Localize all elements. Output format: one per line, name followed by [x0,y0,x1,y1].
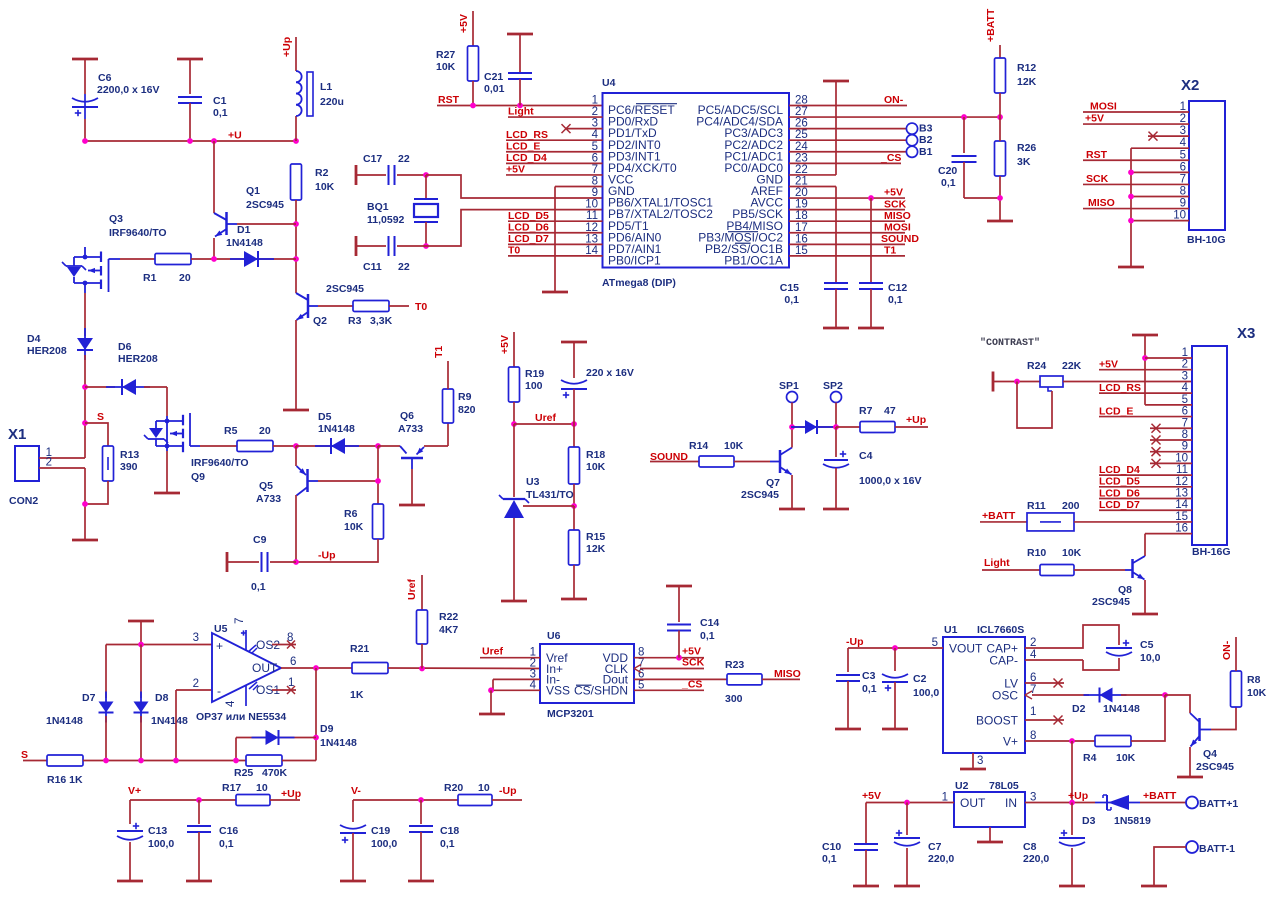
svg-text:C12: C12 [888,282,907,294]
svg-text:Uref: Uref [406,578,418,600]
svg-text:_CS: _CS [880,152,901,164]
svg-text:T1: T1 [433,346,445,358]
svg-text:_CS: _CS [681,678,702,690]
svg-text:C20: C20 [938,165,957,177]
svg-text:Q1: Q1 [246,185,260,197]
svg-text:C14: C14 [700,617,719,629]
svg-text:0,1: 0,1 [941,177,956,189]
svg-text:0,1: 0,1 [440,838,455,850]
svg-text:ICL7660S: ICL7660S [977,624,1024,636]
svg-text:+U: +U [228,130,242,142]
svg-text:R15: R15 [586,531,605,543]
svg-text:U6: U6 [547,630,561,642]
svg-text:220,0: 220,0 [1023,853,1049,865]
svg-text:R17: R17 [222,782,241,794]
svg-text:RST: RST [438,94,460,106]
svg-text:D4: D4 [27,333,41,345]
svg-text:R27: R27 [436,49,455,61]
svg-text:SCK: SCK [682,657,705,669]
svg-text:+5V: +5V [458,14,470,33]
svg-text:V-: V- [351,785,361,797]
svg-text:+5V: +5V [884,187,903,199]
svg-text:SOUND: SOUND [650,451,688,463]
svg-text:OUT: OUT [960,796,986,810]
svg-text:U4: U4 [602,77,616,89]
svg-text:Q3: Q3 [109,213,123,225]
svg-text:L1: L1 [320,81,332,93]
svg-text:+BATT: +BATT [1143,790,1177,802]
svg-text:Uref: Uref [482,646,504,658]
svg-text:3: 3 [193,632,199,644]
svg-text:C9: C9 [253,534,267,546]
svg-text:U2: U2 [955,780,969,792]
svg-text:ATmega8 (DIP): ATmega8 (DIP) [602,277,676,289]
svg-text:HER208: HER208 [27,345,67,357]
svg-text:470K: 470K [262,767,288,779]
svg-text:R12: R12 [1017,62,1036,74]
svg-text:3,3K: 3,3K [370,315,393,327]
svg-text:22K: 22K [1062,360,1082,372]
svg-text:+5V: +5V [1085,113,1104,125]
svg-text:U1: U1 [944,624,958,636]
svg-text:LCD_RS: LCD_RS [1099,382,1141,394]
svg-text:10K: 10K [586,461,606,473]
svg-text:R25: R25 [234,767,253,779]
svg-text:LCD_E: LCD_E [506,141,540,153]
svg-text:+5V: +5V [506,164,525,176]
svg-text:78L05: 78L05 [989,780,1019,792]
svg-text:220u: 220u [320,96,344,108]
svg-text:220,0: 220,0 [928,853,954,865]
svg-text:R8: R8 [1247,674,1261,686]
svg-text:SCK: SCK [884,198,907,210]
svg-text:Q5: Q5 [259,480,273,492]
svg-text:T0: T0 [415,301,427,313]
svg-text:0,1: 0,1 [784,294,799,306]
svg-text:20: 20 [179,272,191,284]
svg-text:SP2: SP2 [823,380,843,392]
svg-text:3K: 3K [1017,156,1031,168]
svg-text:-Up: -Up [318,550,336,562]
svg-text:V+: V+ [1003,734,1018,748]
svg-text:VOUT: VOUT [949,641,983,655]
svg-text:3: 3 [1182,370,1188,382]
svg-text:300: 300 [725,693,743,705]
svg-text:0,01: 0,01 [484,83,505,95]
svg-text:820: 820 [458,404,476,416]
svg-text:Q8: Q8 [1118,584,1132,596]
svg-text:HER208: HER208 [118,353,158,365]
svg-text:IRF9640/TO: IRF9640/TO [109,227,167,239]
svg-text:2SC945: 2SC945 [326,283,364,295]
svg-text:0,1: 0,1 [700,630,715,642]
svg-text:22: 22 [398,261,410,273]
svg-text:R18: R18 [586,449,605,461]
svg-text:R1: R1 [143,272,157,284]
svg-text:1K: 1K [350,689,364,701]
svg-text:CON2: CON2 [9,495,38,507]
svg-text:6: 6 [290,656,296,668]
svg-text:0,1: 0,1 [213,107,228,119]
svg-text:0,1: 0,1 [251,581,266,593]
svg-text:12K: 12K [1017,76,1037,88]
svg-text:1N4148: 1N4148 [318,423,355,435]
svg-text:390: 390 [120,461,138,473]
svg-text:2SC945: 2SC945 [246,199,284,211]
svg-text:Q7: Q7 [766,477,780,489]
svg-text:LCD_D6: LCD_D6 [508,222,549,234]
svg-text:0,1: 0,1 [822,853,837,865]
svg-text:R14: R14 [689,440,708,452]
svg-text:C4: C4 [859,450,873,462]
svg-text:Q9: Q9 [191,471,205,483]
svg-text:1N5819: 1N5819 [1114,815,1151,827]
svg-text:4K7: 4K7 [439,624,458,636]
svg-text:R7: R7 [859,405,873,417]
svg-text:C16: C16 [219,825,238,837]
svg-text:100: 100 [525,380,543,392]
svg-text:-Up: -Up [846,636,864,648]
svg-text:R16 1K: R16 1K [47,774,83,786]
svg-text:C17: C17 [363,153,382,165]
svg-text:SOUND: SOUND [881,233,919,245]
svg-text:Light: Light [984,557,1010,569]
svg-text:-Up: -Up [499,785,517,797]
svg-text:2SC945: 2SC945 [741,489,779,501]
svg-text:R21: R21 [350,643,369,655]
svg-text:11,0592: 11,0592 [367,214,405,226]
svg-text:0,1: 0,1 [888,294,903,306]
svg-text:3: 3 [977,755,983,767]
svg-text:A733: A733 [398,423,423,435]
svg-text:B2: B2 [919,134,933,146]
svg-text:Q6: Q6 [400,410,414,422]
svg-text:C3: C3 [862,670,876,682]
svg-text:100,0: 100,0 [913,687,939,699]
svg-text:LCD_E: LCD_E [1099,405,1133,417]
svg-text:MISO: MISO [774,668,801,680]
svg-text:100,0: 100,0 [148,838,174,850]
svg-text:MISO: MISO [884,210,911,222]
svg-text:LCD_D5: LCD_D5 [508,210,549,222]
svg-text:PB0/ICP1: PB0/ICP1 [608,254,661,268]
svg-text:IN: IN [1005,796,1017,810]
svg-text:S: S [21,749,28,761]
svg-text:-: - [217,684,221,698]
svg-text:Uref: Uref [535,412,557,424]
svg-text:T1: T1 [884,245,896,257]
svg-text:MOSI: MOSI [884,222,911,234]
svg-text:OP37 или NE5534: OP37 или NE5534 [196,711,286,723]
svg-text:1N4148: 1N4148 [46,715,83,727]
svg-text:T0: T0 [508,245,520,257]
svg-text:BH-16G: BH-16G [1192,546,1231,558]
svg-text:B1: B1 [919,146,933,158]
svg-text:7: 7 [234,618,246,624]
svg-text:ON-: ON- [884,94,904,106]
svg-text:D3: D3 [1082,815,1096,827]
svg-text:C6: C6 [98,72,112,84]
svg-text:C21: C21 [484,71,503,83]
svg-text:R4: R4 [1083,752,1097,764]
svg-text:R2: R2 [315,167,329,179]
svg-text:S: S [97,411,104,423]
svg-text:D8: D8 [155,692,169,704]
svg-text:CAP-: CAP- [989,653,1018,667]
svg-text:D5: D5 [318,411,332,423]
svg-text:TL431/TO: TL431/TO [526,489,574,501]
svg-text:C11: C11 [363,261,382,273]
svg-text:10,0: 10,0 [1140,652,1161,664]
svg-text:R22: R22 [439,611,458,623]
svg-text:LCD_D5: LCD_D5 [1099,476,1140,488]
svg-text:LCD_D4: LCD_D4 [506,152,547,164]
svg-text:C7: C7 [928,841,942,853]
svg-text:BATT-1: BATT-1 [1199,843,1235,855]
svg-text:1N4148: 1N4148 [1103,703,1140,715]
svg-text:1N4148: 1N4148 [226,237,263,249]
svg-text:220 x 16V: 220 x 16V [586,367,634,379]
svg-text:V+: V+ [128,785,141,797]
svg-text:0,1: 0,1 [862,683,877,695]
svg-text:LCD_RS: LCD_RS [506,129,548,141]
svg-text:1N4148: 1N4148 [320,737,357,749]
svg-text:2SC945: 2SC945 [1196,761,1234,773]
svg-text:10K: 10K [344,521,364,533]
svg-text:OSC: OSC [992,688,1018,702]
svg-text:47: 47 [884,405,896,417]
svg-text:BATT+1: BATT+1 [1199,798,1238,810]
svg-text:10K: 10K [436,61,456,73]
svg-text:A733: A733 [256,493,281,505]
svg-text:2200,0 x 16V: 2200,0 x 16V [97,84,159,96]
svg-text:C19: C19 [371,825,390,837]
svg-text:D2: D2 [1072,703,1086,715]
svg-text:2: 2 [46,457,52,469]
svg-text:4: 4 [225,700,237,707]
svg-text:10: 10 [256,782,268,794]
svg-text:R20: R20 [444,782,463,794]
svg-text:100,0: 100,0 [371,838,397,850]
svg-text:C15: C15 [780,282,799,294]
svg-text:22: 22 [398,153,410,165]
svg-text:MISO: MISO [1088,197,1115,209]
svg-text:200: 200 [1062,500,1080,512]
svg-text:SP1: SP1 [779,380,799,392]
svg-text:8: 8 [287,632,293,644]
svg-text:R6: R6 [344,508,358,520]
svg-text:+Up: +Up [281,37,293,57]
svg-text:R11: R11 [1027,500,1046,512]
svg-text:10K: 10K [1116,752,1136,764]
svg-text:20: 20 [259,425,271,437]
svg-text:12K: 12K [586,543,606,555]
svg-text:1: 1 [288,677,294,689]
svg-text:10K: 10K [315,181,335,193]
svg-text:RST: RST [1086,149,1108,161]
svg-text:+Up: +Up [906,414,926,426]
svg-text:R13: R13 [120,449,139,461]
svg-text:U5: U5 [214,623,228,635]
svg-text:MOSI: MOSI [1090,101,1117,113]
svg-text:+5V: +5V [499,335,511,354]
svg-text:10K: 10K [1247,687,1267,699]
svg-text:C5: C5 [1140,639,1154,651]
svg-text:0,1: 0,1 [219,838,234,850]
svg-text:D6: D6 [118,341,132,353]
svg-text:9: 9 [592,187,598,199]
svg-text:D9: D9 [320,723,334,735]
svg-text:R9: R9 [458,391,472,403]
svg-text:Light: Light [508,106,534,118]
svg-text:2SC945: 2SC945 [1092,596,1130,608]
svg-text:D7: D7 [82,692,96,704]
svg-text:C1: C1 [213,95,227,107]
svg-text:C18: C18 [440,825,459,837]
svg-text:D1: D1 [237,224,251,236]
svg-text:SCK: SCK [1086,173,1109,185]
svg-text:1000,0 x 16V: 1000,0 x 16V [859,475,921,487]
svg-text:C10: C10 [822,841,841,853]
svg-text:R19: R19 [525,368,544,380]
svg-text:"CONTRAST": "CONTRAST" [980,337,1040,349]
svg-text:ON-: ON- [1221,640,1233,660]
svg-text:C2: C2 [913,673,927,685]
svg-text:BH-10G: BH-10G [1187,234,1226,246]
svg-text:R24: R24 [1027,360,1046,372]
svg-text:10K: 10K [724,440,744,452]
svg-text:LCD_D7: LCD_D7 [508,233,549,245]
svg-text:X2: X2 [1181,77,1199,94]
svg-text:R10: R10 [1027,547,1046,559]
svg-text:X1: X1 [8,426,26,443]
svg-text:+: + [216,639,223,653]
svg-text:OUT: OUT [252,661,278,675]
svg-text:+BATT: +BATT [982,510,1016,522]
svg-text:B3: B3 [919,123,933,135]
svg-text:Q4: Q4 [1203,748,1217,760]
svg-text:R5: R5 [224,425,238,437]
svg-text:1: 1 [592,95,598,107]
svg-text:+BATT: +BATT [985,8,997,42]
svg-text:Q2: Q2 [313,315,327,327]
svg-text:+5V: +5V [1099,359,1118,371]
svg-text:+5V: +5V [862,790,881,802]
svg-text:IRF9640/TO: IRF9640/TO [191,457,249,469]
svg-text:U3: U3 [526,476,540,488]
svg-text:+Up: +Up [281,788,301,800]
svg-text:R26: R26 [1017,142,1036,154]
svg-text:C13: C13 [148,825,167,837]
svg-text:X3: X3 [1237,325,1255,342]
svg-text:2: 2 [193,678,199,690]
svg-text:LCD_D4: LCD_D4 [1099,464,1140,476]
svg-text:10: 10 [478,782,490,794]
svg-text:+Up: +Up [1068,790,1088,802]
svg-text:BQ1: BQ1 [367,201,389,213]
svg-text:PB1/OC1A: PB1/OC1A [724,254,783,268]
svg-text:R23: R23 [725,659,744,671]
svg-text:10K: 10K [1062,547,1082,559]
svg-text:1N4148: 1N4148 [151,715,188,727]
svg-text:C8: C8 [1023,841,1037,853]
svg-text:LCD_D6: LCD_D6 [1099,487,1140,499]
svg-text:MCP3201: MCP3201 [547,708,594,720]
svg-text:R3: R3 [348,315,362,327]
svg-text:10: 10 [585,199,598,211]
svg-text:BOOST: BOOST [976,713,1019,727]
svg-text:1: 1 [1030,706,1036,718]
svg-text:LCD_D7: LCD_D7 [1099,499,1140,511]
svg-text:VSS: VSS [546,684,570,698]
